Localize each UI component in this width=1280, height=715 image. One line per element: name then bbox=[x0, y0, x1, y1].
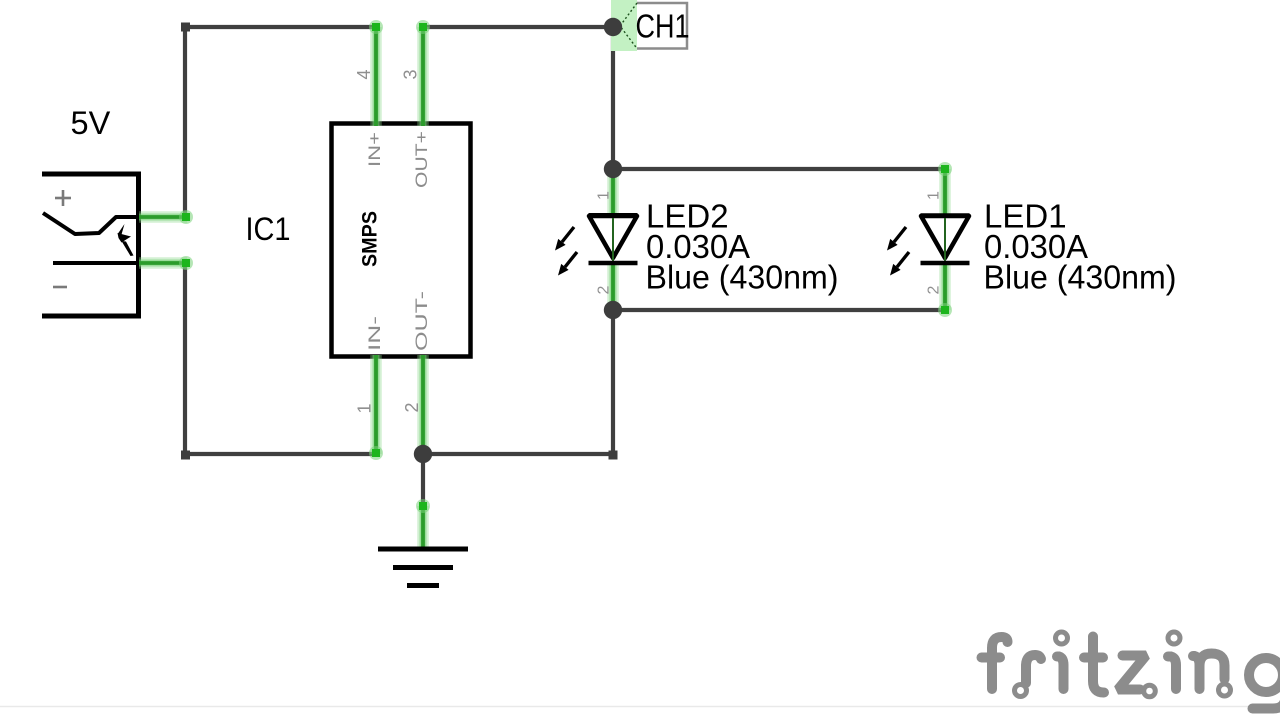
power supply lightning bolt bbox=[118, 224, 134, 256]
LED1 pin 2 cathode (green) bbox=[938, 262, 952, 317]
pin 5V+ (green stub) bbox=[139, 210, 193, 224]
LED1 emission arrows bbox=[887, 227, 909, 276]
power supply minus sign bbox=[53, 286, 67, 289]
wire W9 ground stem bbox=[421, 454, 425, 506]
LED2 pin 2 cathode (green) bbox=[607, 262, 619, 310]
power supply plus sign bbox=[55, 190, 71, 206]
node bend dot top-left bbox=[181, 23, 190, 32]
svg-text:OUT-: OUT- bbox=[412, 291, 431, 351]
wire W2 left vertical (top to 5V +) bbox=[183, 25, 187, 217]
wire W3 top (OUT+ to CH1 node) bbox=[423, 25, 613, 29]
pin 2 OUT- (green stub) bbox=[417, 355, 429, 452]
ground symbol GND bbox=[378, 549, 468, 586]
IC1 box SMPS bbox=[332, 124, 471, 357]
pin 5V- (green stub) bbox=[139, 256, 193, 270]
node LED2 anode junction dot bbox=[604, 160, 622, 178]
svg-text:1: 1 bbox=[355, 403, 375, 413]
LED1 pin 1 anode (green) bbox=[938, 162, 952, 216]
svg-text:5V: 5V bbox=[71, 105, 111, 141]
LED2 symbol bbox=[589, 216, 638, 264]
svg-text:2: 2 bbox=[402, 402, 422, 412]
svg-text:Blue (430nm): Blue (430nm) bbox=[646, 259, 839, 296]
pin 1 IN- (green stub) bbox=[369, 355, 383, 460]
svg-text:IN+: IN+ bbox=[365, 132, 384, 167]
svg-text:SMPS: SMPS bbox=[359, 211, 382, 267]
pin 4 IN+ (green stub) bbox=[369, 20, 383, 126]
LED2 pin 1 anode (green) bbox=[607, 169, 619, 216]
fritzing logo rings bbox=[1015, 632, 1231, 697]
wire W1 top-left horizontal (5V+ to IN+) bbox=[185, 25, 376, 29]
pin 3 OUT+ (green stub) bbox=[416, 20, 430, 126]
ground pin (green) bbox=[416, 499, 430, 549]
LED1 symbol bbox=[921, 216, 970, 264]
node CH1 junction dot bbox=[604, 18, 622, 36]
net label CH1 highlight bbox=[611, 0, 637, 51]
svg-text:3: 3 bbox=[401, 69, 421, 79]
net label CH1 flag bbox=[620, 3, 687, 49]
svg-text:Blue (430nm): Blue (430nm) bbox=[984, 259, 1177, 296]
svg-text:2: 2 bbox=[596, 286, 613, 295]
node OUT- junction dot bbox=[414, 445, 432, 463]
wire W7 right vertical lower (LED2 cathode node down and left to OUT- node) bbox=[423, 310, 613, 454]
svg-text:CH1: CH1 bbox=[636, 8, 690, 45]
svg-text:4: 4 bbox=[354, 69, 374, 79]
wire W8 from 5V minus down and right to IN- bbox=[185, 263, 376, 454]
power supply PWR1 5V body bbox=[42, 172, 141, 318]
wire W5 top-right horizontal (LED2 node to LED1 anode) bbox=[613, 167, 945, 171]
svg-text:1: 1 bbox=[926, 191, 943, 200]
fritzing logo bbox=[982, 637, 1280, 709]
svg-text:1: 1 bbox=[596, 191, 613, 200]
LED2 emission arrows bbox=[555, 227, 577, 276]
svg-text:OUT+: OUT+ bbox=[412, 131, 431, 188]
node bend dot bottom-right bbox=[609, 451, 618, 460]
wire W4 right vertical (CH1 node to LED2 anode node) bbox=[611, 27, 615, 169]
node LED2 cathode junction dot bbox=[604, 301, 622, 319]
svg-text:IN-: IN- bbox=[365, 316, 384, 351]
node bend dot bottom-left bbox=[181, 451, 190, 460]
wire W6 bottom-right horizontal (LED1 cathode to LED2 node) bbox=[613, 308, 945, 312]
svg-text:IC1: IC1 bbox=[246, 211, 291, 247]
svg-text:2: 2 bbox=[926, 286, 943, 295]
